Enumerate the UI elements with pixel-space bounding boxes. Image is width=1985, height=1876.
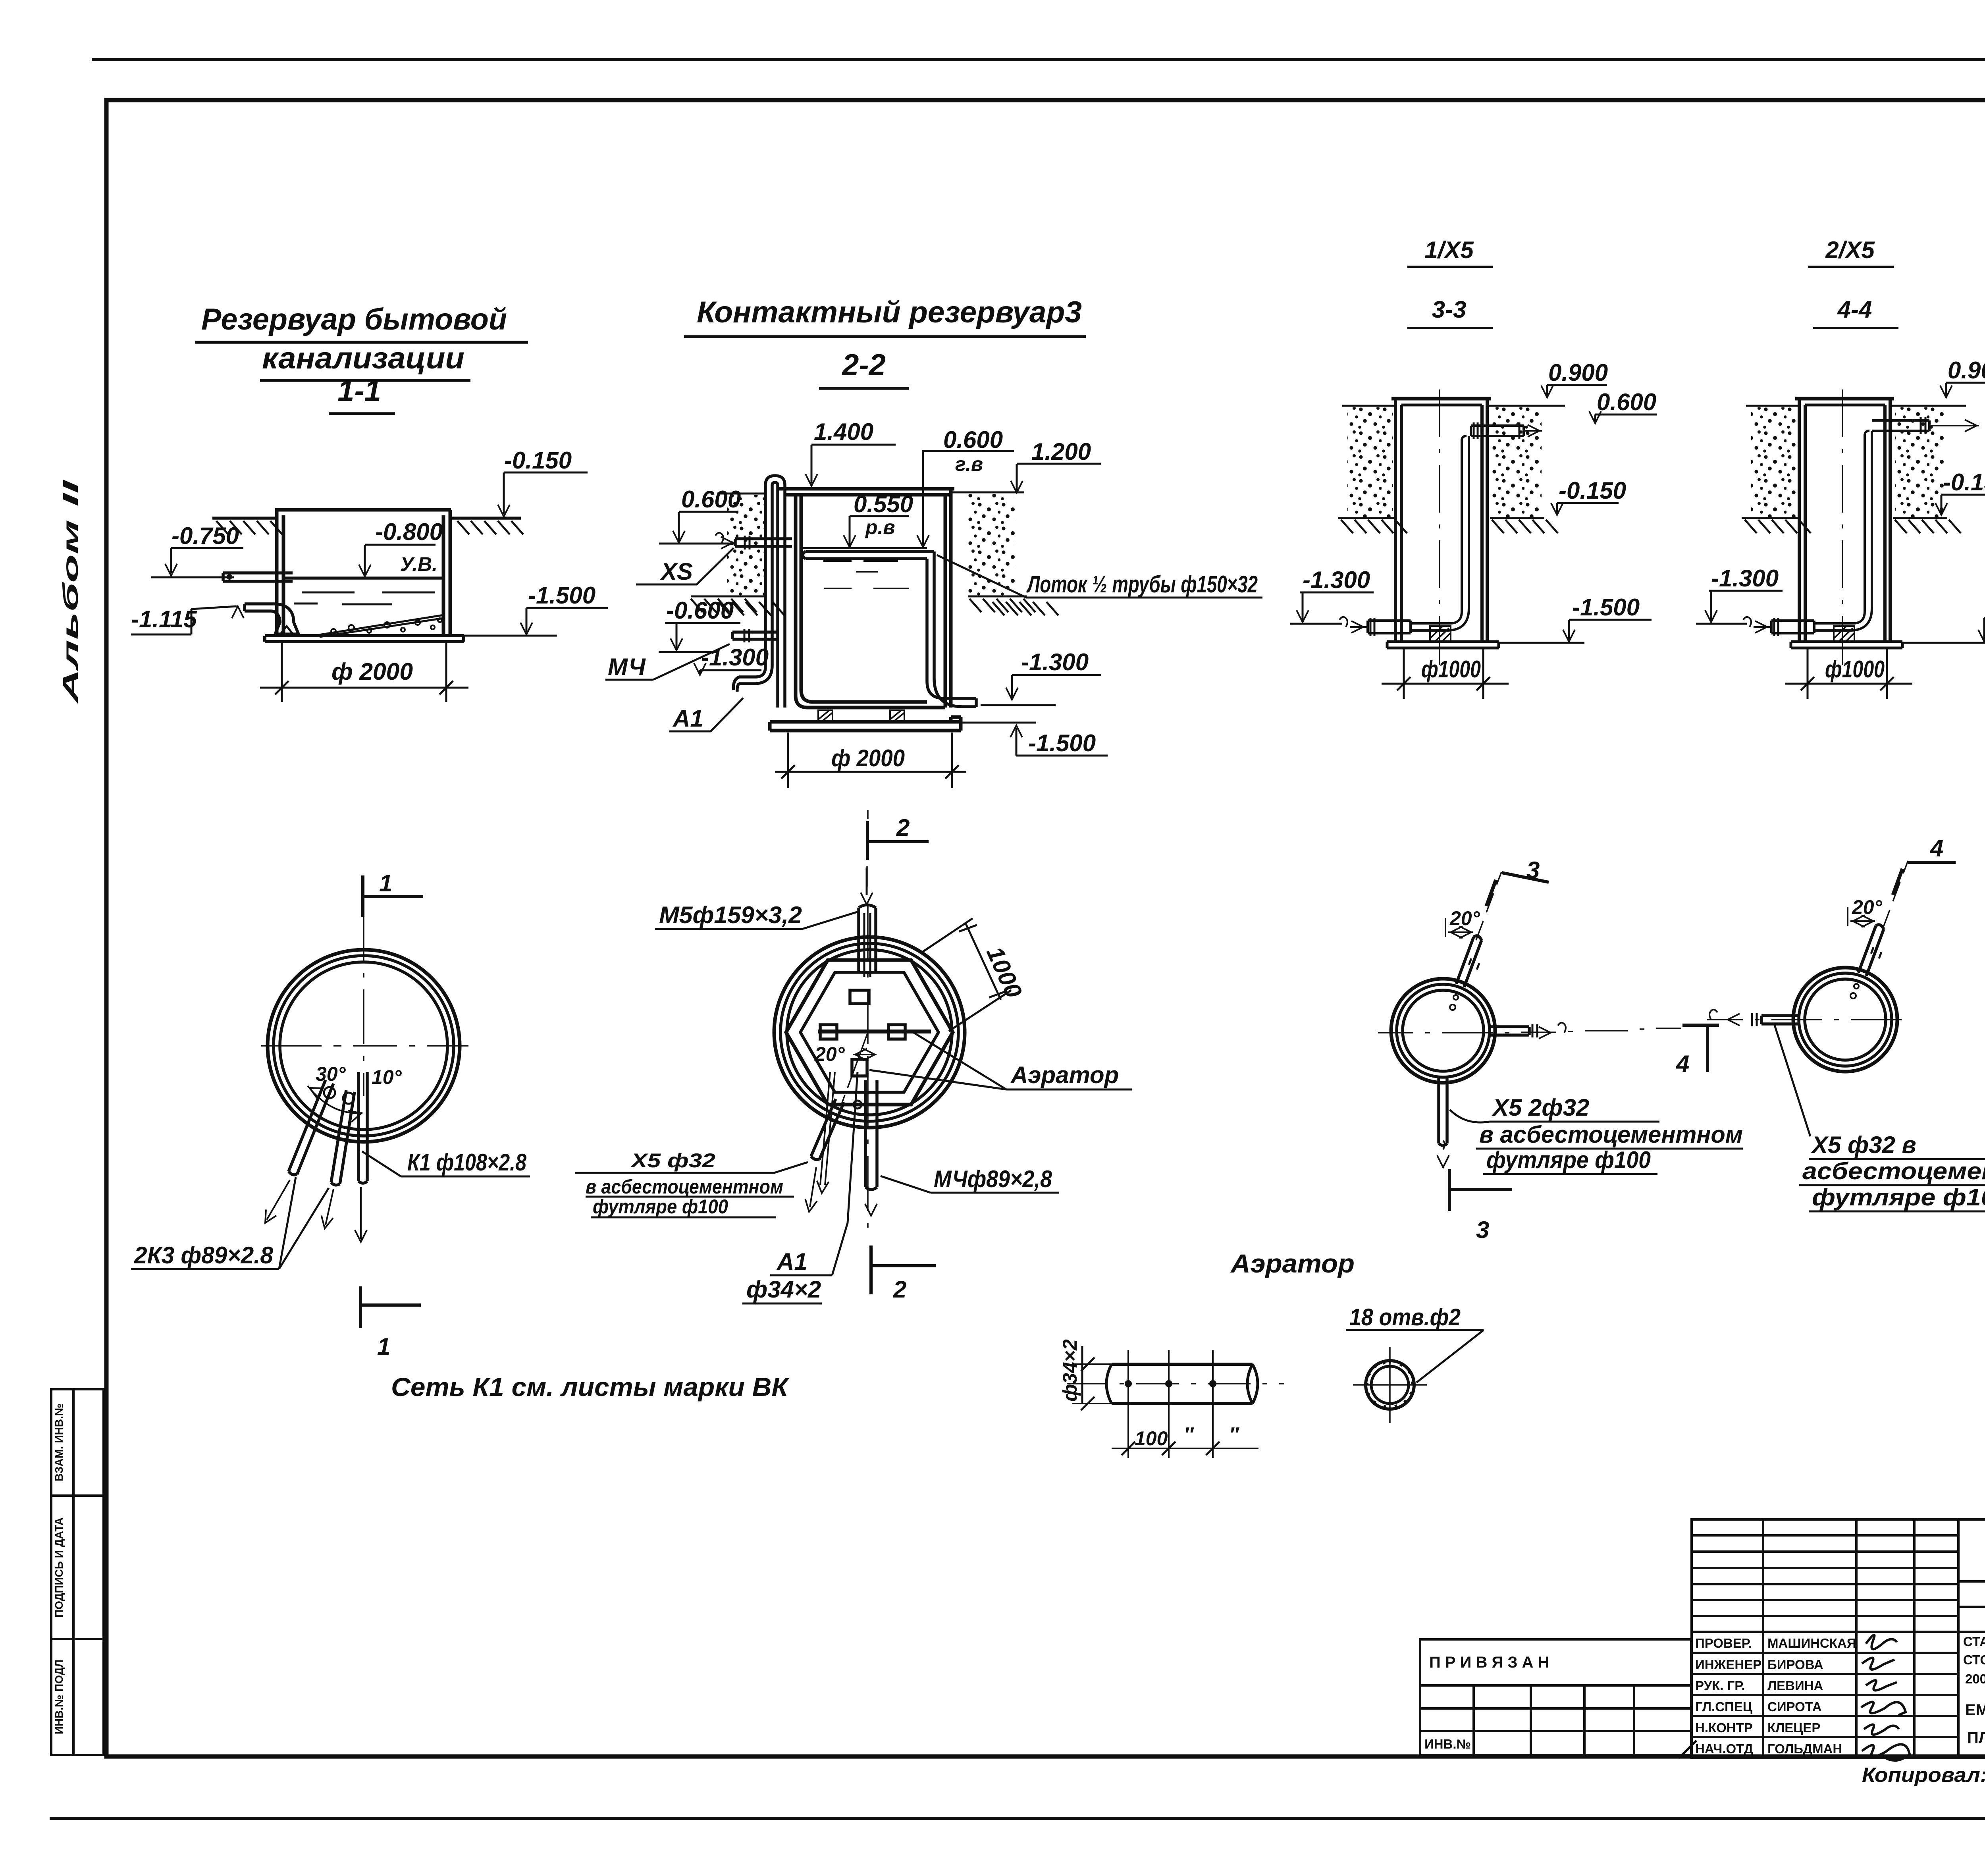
soil right 3-3 <box>1492 407 1542 518</box>
svg-text:20°: 20° <box>1852 896 1883 918</box>
svg-text:КЛЕЦЕР: КЛЕЦЕР <box>1767 1720 1820 1735</box>
plan 4-4 rings <box>1793 968 1897 1072</box>
hexagon inner <box>800 972 939 1092</box>
sludge wedge <box>314 615 443 637</box>
svg-text:ЛЕВИНА: ЛЕВИНА <box>1767 1678 1823 1693</box>
svg-text:2/Х5: 2/Х5 <box>1825 237 1875 263</box>
svg-text:1.200: 1.200 <box>1031 438 1091 465</box>
svg-text:-1.300: -1.300 <box>1711 565 1779 592</box>
ground lines 3-3 <box>1342 405 1565 407</box>
svg-text:18 отв.ф2: 18 отв.ф2 <box>1349 1304 1461 1330</box>
svg-text:ХS: ХS <box>660 558 693 585</box>
svg-text:0.600: 0.600 <box>1597 389 1656 415</box>
svg-text:П Р И В Я З А Н: П Р И В Я З А Н <box>1429 1654 1549 1671</box>
svg-text:ИНВ.№ ПОДЛ: ИНВ.№ ПОДЛ <box>53 1660 65 1734</box>
svg-text:ГОЛЬДМАН: ГОЛЬДМАН <box>1767 1741 1842 1756</box>
svg-text:30°: 30° <box>316 1063 346 1085</box>
centerlines plan1 <box>261 1045 468 1047</box>
flange circles at center <box>324 1087 335 1098</box>
svg-text:А1: А1 <box>776 1248 807 1275</box>
tank 1-1 shell <box>265 510 464 642</box>
svg-text:Х5 ф32 в: Х5 ф32 в <box>1811 1132 1916 1158</box>
svg-text:Аэратор: Аэратор <box>1010 1062 1119 1088</box>
external riser pipe with top bend <box>765 485 772 667</box>
title block signature table <box>1692 1519 1985 1758</box>
svg-text:асбестоцементном: асбестоцементном <box>1802 1158 1985 1184</box>
tank 2-2 lid <box>779 489 954 495</box>
svg-text:ф34×2: ф34×2 <box>746 1276 821 1303</box>
svg-text:БИРОВА: БИРОВА <box>1767 1657 1823 1672</box>
tank 4-4 walls <box>1799 399 1890 642</box>
svg-text:2К3 ф89×2.8: 2К3 ф89×2.8 <box>134 1242 274 1269</box>
svg-text:4-4: 4-4 <box>1837 296 1872 323</box>
tank 4-4 lid <box>1795 397 1894 401</box>
svg-text:4: 4 <box>1676 1051 1689 1077</box>
ground line left <box>212 517 277 520</box>
svg-text:ПОДПИСЬ И ДАТА: ПОДПИСЬ И ДАТА <box>53 1517 65 1618</box>
svg-text:3: 3 <box>1476 1217 1489 1243</box>
svg-text:Лоток ½ трубы ф150×32: Лоток ½ трубы ф150×32 <box>1026 571 1258 598</box>
plan 3-3 rings <box>1391 979 1495 1083</box>
dimension 100 row <box>1112 1448 1258 1449</box>
vertical centerline plan2 <box>867 810 868 1228</box>
svg-text:ф 2000: ф 2000 <box>831 745 905 771</box>
pipe angled 20deg up <box>1858 925 1884 976</box>
svg-text:ГЛ.СПЕЦ: ГЛ.СПЕЦ <box>1695 1699 1752 1714</box>
svg-text:-0.750: -0.750 <box>172 523 239 549</box>
plan 2-2 tank rings <box>774 937 965 1128</box>
bottom pipe casing 4-4 <box>1771 621 1814 633</box>
trough half pipe <box>803 551 934 559</box>
svg-text:ИНВ.№: ИНВ.№ <box>1424 1737 1471 1751</box>
svg-text:0.600: 0.600 <box>943 426 1003 453</box>
svg-text:Сеть К1 см. листы марки ВК: Сеть К1 см. листы марки ВК <box>391 1372 790 1402</box>
svg-text:ф34×2: ф34×2 <box>1059 1339 1081 1402</box>
svg-text:СИРОТА: СИРОТА <box>1767 1699 1822 1714</box>
pipe XS inlet <box>735 539 792 546</box>
soil left 4-4 <box>1751 407 1797 518</box>
svg-text:1: 1 <box>379 870 392 897</box>
svg-text:А1: А1 <box>672 705 703 732</box>
svg-text:футляре ф100: футляре ф100 <box>1486 1147 1651 1173</box>
pipe МЧ down <box>865 1080 877 1190</box>
pipe Х5 angled down-left <box>811 1099 844 1159</box>
section mark 1 bottom <box>360 1286 421 1328</box>
pipe 30deg <box>289 1080 333 1175</box>
lower pipe with elbow and bell mouth <box>245 604 276 611</box>
ground line right <box>450 517 521 520</box>
svg-text:РУК. ГР.: РУК. ГР. <box>1695 1678 1745 1693</box>
soil strip right <box>968 494 1016 596</box>
base plate 4-4 <box>1791 642 1902 648</box>
small hole circle <box>854 1101 861 1109</box>
svg-text:-0.150: -0.150 <box>1943 469 1985 496</box>
svg-text:-1.500: -1.500 <box>1028 730 1096 756</box>
support block hatched 4-4 <box>1834 626 1854 642</box>
svg-text:-1.300: -1.300 <box>701 644 769 671</box>
pipe K1 vertical <box>358 1072 367 1183</box>
section mark 4 top <box>1908 861 1956 864</box>
section mark 2 bottom <box>871 1246 936 1294</box>
svg-text:СТОЧНЫХ ВОД ПРОИЗВОДИТЕЛЬНОСТЬ: СТОЧНЫХ ВОД ПРОИЗВОДИТЕЛЬНОСТЬЮ <box>1963 1652 1985 1667</box>
top pipe casing 3-3 <box>1471 426 1524 436</box>
привязан table <box>1420 1639 1691 1755</box>
base plate 3-3 <box>1387 642 1499 648</box>
svg-text:канализации: канализации <box>262 341 464 375</box>
section mark 4 left <box>1682 1024 1719 1072</box>
svg-text:2: 2 <box>896 814 910 841</box>
svg-text:М5ф159×3,2: М5ф159×3,2 <box>659 902 802 928</box>
svg-text:-0.150: -0.150 <box>504 447 572 474</box>
excavation bottom hatch 4-4 <box>1742 517 1947 519</box>
svg-text:Резервуар бытовой: Резервуар бытовой <box>201 303 507 336</box>
end view crosshair <box>1353 1347 1427 1423</box>
svg-text:-0.800: -0.800 <box>375 519 443 545</box>
svg-text:ПРОВЕР.: ПРОВЕР. <box>1695 1636 1752 1650</box>
section line 20deg lower-left <box>841 1032 868 1106</box>
svg-text:НАЧ.ОТД: НАЧ.ОТД <box>1695 1741 1753 1756</box>
svg-text:г.в: г.в <box>955 453 983 475</box>
svg-text:р.в: р.в <box>865 516 895 538</box>
centerline 4-4 <box>1842 389 1843 665</box>
tank 2-2 right wall <box>945 489 951 708</box>
trough downpipe and outlet <box>927 551 934 681</box>
svg-text:4: 4 <box>1930 835 1943 862</box>
water level 1-1 <box>283 576 443 580</box>
paper bottom edge line <box>50 1817 1985 1820</box>
internal downpipe 4-4 <box>1865 431 1872 611</box>
svg-text:3-3: 3-3 <box>1432 296 1467 323</box>
svg-text:Копировал: Коршунова: Копировал: Коршунова <box>1862 1764 1985 1787</box>
svg-text:″: ″ <box>1229 1423 1239 1446</box>
svg-text:200 М³/СУТ.: 200 М³/СУТ. <box>1965 1672 1985 1686</box>
svg-text:20°: 20° <box>1449 907 1480 929</box>
signature rows names <box>1695 1636 1856 1756</box>
svg-text:футляре ф100: футляре ф100 <box>593 1195 728 1218</box>
svg-text:в асбестоцементном: в асбестоцементном <box>586 1176 783 1198</box>
angle arc 30/10 <box>308 1086 362 1113</box>
top pipe casing 4-4 <box>1872 420 1929 431</box>
leader from pipe <box>1775 1025 1810 1136</box>
svg-text:Н.КОНТР: Н.КОНТР <box>1695 1720 1753 1735</box>
svg-text:ф1000: ф1000 <box>1825 656 1885 683</box>
bottom pipe casing 3-3 <box>1368 621 1411 633</box>
svg-text:-1.300: -1.300 <box>1021 649 1089 675</box>
pipe М5 top <box>859 905 876 971</box>
section mark 2 top <box>867 821 929 860</box>
support blocks hatched <box>818 710 904 722</box>
soil left 3-3 <box>1347 407 1393 518</box>
svg-text:0.900: 0.900 <box>1548 359 1608 386</box>
pipe 10deg <box>331 1090 355 1185</box>
aerator squares <box>820 990 905 1076</box>
flange holes plan3 <box>1450 1005 1455 1010</box>
svg-text:К1 ф108×2.8: К1 ф108×2.8 <box>407 1149 527 1176</box>
water level 2-2 <box>801 547 927 549</box>
inlet pipe -0.750 <box>223 573 293 581</box>
svg-text:футляре ф100: футляре ф100 <box>1812 1184 1985 1211</box>
svg-text:0.600: 0.600 <box>681 486 741 513</box>
svg-text:ЕМКОСТНЫЕ СООРУЖЕНИЯ.: ЕМКОСТНЫЕ СООРУЖЕНИЯ. <box>1965 1701 1985 1719</box>
svg-text:0.550: 0.550 <box>854 491 913 517</box>
plan 1-1 tank rings <box>268 950 460 1142</box>
corner diagonal <box>1679 1741 1696 1758</box>
tank 3-3 walls <box>1395 399 1487 642</box>
pipe down vertical <box>1439 1077 1447 1145</box>
svg-text:20°: 20° <box>814 1043 845 1065</box>
left stamp column <box>51 1389 104 1755</box>
svg-text:Х5 ф32: Х5 ф32 <box>630 1149 715 1172</box>
svg-text:ИНЖЕНЕР: ИНЖЕНЕР <box>1695 1657 1761 1672</box>
svg-text:″: ″ <box>1184 1423 1194 1446</box>
svg-text:ф 2000: ф 2000 <box>331 658 413 685</box>
svg-text:МЧф89×2,8: МЧф89×2,8 <box>934 1166 1052 1192</box>
svg-text:100: 100 <box>1135 1427 1168 1450</box>
horizontal centerline plan4 <box>1707 1019 1902 1020</box>
svg-text:-0.150: -0.150 <box>1559 477 1626 504</box>
tank 2-2 floor <box>807 702 945 708</box>
section mark 3 top <box>1502 873 1549 882</box>
svg-text:1/Х5: 1/Х5 <box>1424 237 1474 263</box>
svg-text:0.900: 0.900 <box>1948 357 1985 384</box>
pipe angled 20deg up <box>1456 936 1482 987</box>
bottom elbow and pipe 3-3 <box>1411 608 1469 630</box>
svg-text:МАШИНСКАЯ: МАШИНСКАЯ <box>1767 1636 1856 1650</box>
svg-text:-1.500: -1.500 <box>528 582 595 609</box>
support block hatched 3-3 <box>1430 626 1451 642</box>
pipe A1 bottom elbow exits left <box>739 665 772 684</box>
svg-text:Контактный резервуар3: Контактный резервуар3 <box>697 295 1082 329</box>
centerline 3-3 <box>1439 389 1440 665</box>
bottom elbow and pipe 4-4 <box>1814 608 1872 630</box>
svg-text:СТАНЦИЯ БИОЛОГИЧЕСКОЙ ОЧИСТКИ: СТАНЦИЯ БИОЛОГИЧЕСКОЙ ОЧИСТКИ <box>1963 1634 1985 1649</box>
svg-text:10°: 10° <box>372 1066 402 1088</box>
section line 4 dashdot <box>1883 861 1908 929</box>
svg-text:Альбом II: Альбом II <box>59 480 83 705</box>
svg-text:ф1000: ф1000 <box>1421 656 1481 683</box>
hole cross ticks <box>1128 1350 1213 1458</box>
svg-text:-1.300: -1.300 <box>1303 567 1370 593</box>
hexagon outer <box>786 960 953 1105</box>
svg-text:Аэратор: Аэратор <box>1230 1249 1355 1278</box>
svg-text:1-1: 1-1 <box>337 374 381 408</box>
flange holes plan4 <box>1850 993 1856 999</box>
tube centerline <box>1067 1383 1284 1384</box>
svg-text:-0.600: -0.600 <box>666 597 734 624</box>
svg-text:в асбестоцементном: в асбестоцементном <box>1479 1121 1743 1148</box>
dimension 1000 diagonal <box>921 918 1011 1031</box>
soil right 4-4 <box>1895 407 1945 518</box>
pipe МЧ inlet <box>732 632 779 639</box>
svg-text:1.400: 1.400 <box>814 418 873 445</box>
section line 3 dashdot <box>1476 872 1501 940</box>
section mark 3 bottom <box>1449 1169 1512 1211</box>
svg-text:ВЗАМ. ИНВ.№: ВЗАМ. ИНВ.№ <box>53 1404 65 1481</box>
svg-text:1: 1 <box>377 1333 390 1360</box>
internal drop pipe <box>778 485 785 708</box>
pipe left horizontal <box>1761 1016 1798 1024</box>
foundation plate 2-2 <box>770 717 961 731</box>
excavation bottom hatch 3-3 <box>1338 517 1544 519</box>
aerator tube side view <box>1112 1364 1253 1404</box>
internal downpipe 3-3 <box>1462 436 1469 611</box>
horizontal centerline plan3 <box>1378 1028 1681 1033</box>
svg-text:ПЛАНЫ. РАЗРЕЗЫ.: ПЛАНЫ. РАЗРЕЗЫ. <box>1967 1729 1985 1747</box>
soil strip left <box>727 495 765 596</box>
center bar aerator <box>818 1030 931 1033</box>
svg-text:У.В.: У.В. <box>400 553 437 575</box>
signatures squiggles <box>1861 1635 1910 1760</box>
tank 1-1 base plate <box>265 636 464 642</box>
svg-text:МЧ: МЧ <box>608 654 646 680</box>
ground lines 4-4 <box>1746 405 1966 407</box>
svg-text:3: 3 <box>1526 857 1540 883</box>
tank 3-3 lid <box>1391 397 1491 401</box>
svg-text:2-2: 2-2 <box>841 348 886 382</box>
tank 2-2 left wall <box>796 495 813 708</box>
aerator end view <box>1366 1361 1414 1409</box>
paper top edge line <box>92 58 1985 61</box>
pipe А1 center down <box>820 1072 835 1185</box>
svg-text:-1.115: -1.115 <box>131 606 197 632</box>
svg-text:-1.500: -1.500 <box>1572 594 1640 621</box>
svg-text:2: 2 <box>893 1276 906 1303</box>
section mark 1 top <box>363 875 423 917</box>
pipe right horizontal <box>1491 1027 1529 1035</box>
svg-text:Х5 2ф32: Х5 2ф32 <box>1492 1094 1589 1121</box>
